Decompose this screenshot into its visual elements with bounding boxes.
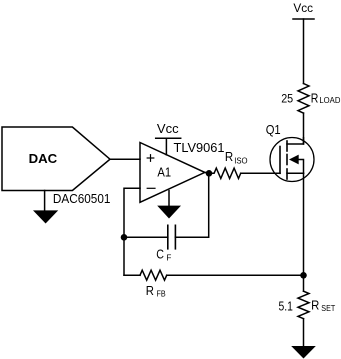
ground (DAC) [33,210,58,223]
transistor Q1 (NMOS) [266,123,314,182]
svg-text:RSET: RSET [311,299,335,313]
wire inverting input to feedback node [124,188,140,237]
wire CF right plate up to output node [175,173,208,237]
wire node to CF left plate [124,236,168,238]
resistor RLOAD (25) [281,84,340,114]
svg-text:A1: A1 [157,165,171,179]
op-amp A1 (TLV9061) [140,121,225,202]
resistor RSET (5.1) [279,291,336,319]
wire Q1 source to node [303,173,305,291]
wire Vcc bar to RLOAD [303,19,305,84]
power net Vcc (top right) [293,1,314,19]
svg-text:RFB: RFB [146,284,166,299]
svg-text:25: 25 [281,92,293,106]
ground (bottom right) [291,346,316,359]
node (feedback tap at Q1 source / RSET top) [300,272,307,279]
svg-text:CF: CF [156,247,171,262]
wire RSET to ground [303,319,305,346]
wire DAC to ground stub [44,191,46,211]
resistor RFB [140,270,167,298]
svg-text:DAC: DAC [29,151,58,166]
wire RISO to Q1 gate [241,172,280,174]
svg-text:Vcc: Vcc [157,121,179,136]
wire RLOAD to Q1 drain [303,113,305,144]
node (feedback junction) [121,234,128,241]
capacitor CF [156,225,175,262]
svg-text:Q1: Q1 [266,123,281,137]
svg-text:5.1: 5.1 [279,299,293,313]
svg-text:DAC60501: DAC60501 [53,192,111,206]
wire DAC output to op-amp +input [110,158,140,160]
svg-text:RLOAD: RLOAD [311,91,341,105]
wire op-amp Vss to ground [168,191,170,206]
resistor RISO [209,150,248,178]
wire to RFB [124,274,140,276]
wire op-amp output to node [205,171,209,174]
svg-text:Vcc: Vcc [293,1,313,15]
svg-text:TLV9061: TLV9061 [174,140,225,155]
ground (op-amp) [157,206,181,219]
wire RFB to right node [167,274,304,276]
wire feedback node down to RFB [123,237,125,275]
DAC block DAC60501 [2,127,110,206]
svg-text:RISO: RISO [225,150,248,165]
node (op-amp output) [206,170,213,177]
